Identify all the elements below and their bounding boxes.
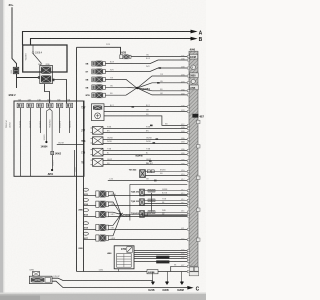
wire 1T6 pin [103, 154, 187, 156]
wire TQB 3X2 p1 [144, 200, 187, 202]
pin tick [187, 193, 189, 195]
ETM pin table [117, 254, 132, 268]
wire TB1 pin [103, 143, 187, 145]
pin tick [187, 250, 189, 252]
wire inner vertical [74, 150, 76, 176]
pin tick [187, 90, 189, 92]
relay box outline [23, 45, 67, 72]
scan edge left [0, 0, 3, 300]
wire ETM out [134, 254, 187, 256]
wire 2X4 to splice [108, 202, 121, 215]
wire ETM out [134, 258, 187, 260]
big box bottom edge [77, 271, 188, 273]
wire 30+ feed down [12, 7, 17, 67]
injector 0X7 [83, 232, 88, 235]
wire below 14062 [52, 155, 54, 169]
pin tick [187, 67, 189, 69]
injector 4X4 [83, 209, 88, 212]
pin tick [187, 190, 189, 192]
sensor T6X body [140, 170, 146, 178]
pin tick [187, 110, 189, 112]
sensor TX7 body [92, 104, 105, 121]
pin tick [187, 94, 189, 96]
splice box B12b [156, 260, 169, 263]
pin tick [187, 239, 189, 241]
wire 1T6 pin [103, 150, 187, 152]
node 1006:4 [32, 52, 34, 54]
pin tick [187, 138, 189, 140]
wire relay right pin [52, 80, 66, 104]
pin tick [187, 164, 189, 166]
ECM box label [190, 54, 198, 59]
pin tick [187, 170, 189, 172]
wire splice mark [149, 160, 152, 162]
wire TQ8 4X2 p2 [144, 215, 187, 217]
wire 0X4 left stub [84, 229, 96, 231]
ECM nub 5 [197, 238, 200, 241]
terminal T3 [37, 103, 43, 108]
terminal T4 [47, 103, 53, 108]
pin tick [187, 215, 189, 217]
wire vertical link [151, 193, 153, 212]
wire TQ8 4X2 p1 [144, 212, 187, 214]
pedal sensor top [32, 272, 39, 277]
pin tick [187, 106, 189, 108]
sub box outline [130, 184, 187, 220]
wire row 4 to splice [105, 86, 136, 89]
bus vertical x84 [83, 101, 85, 272]
ETM bottom stub [118, 269, 120, 272]
wire top feed to fuse [77, 47, 121, 54]
pin tick [187, 211, 189, 213]
pin tick [187, 203, 189, 205]
pin tick [187, 265, 189, 267]
wire 2T7 pin [103, 132, 187, 134]
scan edge bottom [0, 294, 206, 300]
wire 0X7 to splice [108, 215, 121, 236]
pin tick [187, 160, 189, 162]
wire row 2 to ECM [105, 68, 187, 72]
wire ETM out [134, 256, 187, 258]
pedal sensor body [29, 276, 52, 283]
wire T6X pin1 [145, 171, 187, 173]
ECM dark block 4B7 [192, 114, 198, 118]
wire lamp branch [46, 108, 49, 141]
pin tick [187, 59, 189, 61]
wire splice mark [156, 138, 159, 140]
wire splice mark [132, 106, 135, 108]
pin tick [187, 127, 189, 129]
terminal T5 [56, 103, 62, 108]
terminal T1 [17, 103, 23, 108]
pin tick [187, 270, 189, 272]
wire 0X4 to splice [108, 215, 121, 226]
wire pedal out1 [52, 278, 153, 280]
injector 2X4 [83, 198, 88, 201]
wire 2X3 to splice [108, 192, 121, 215]
wire 0X7 left stub [84, 239, 96, 241]
wire splice mark [159, 67, 162, 69]
pin tick [187, 213, 189, 215]
pin tick [187, 149, 189, 151]
ECM sym circle 1 [191, 65, 196, 70]
splice box B12a [156, 256, 169, 259]
wire fuse to ECM [131, 56, 187, 58]
wire TX7 pin2 [104, 111, 187, 113]
ground 31/6B [167, 272, 169, 282]
pin tick [187, 124, 189, 126]
node dot B/61 [51, 169, 53, 171]
wire TQB 2X2 p1 [144, 190, 187, 192]
ECM sym circle 2 [191, 79, 195, 83]
wire ETM out [134, 252, 187, 254]
junction box outline [14, 101, 84, 176]
node dot 14084 [45, 141, 47, 143]
arrowhead A [191, 30, 198, 34]
wire 4X4 to splice [108, 212, 121, 214]
wire 4X4 out [108, 216, 187, 218]
pin tick [187, 142, 189, 144]
wire pedal out2 [52, 281, 187, 287]
pin tick [187, 258, 189, 260]
wire below T5 [59, 108, 61, 133]
wire junction box exit right [57, 144, 84, 146]
wire below T2 [30, 108, 32, 176]
wire below connector [16, 74, 18, 88]
terminal T2 [27, 103, 33, 108]
wire row 3 to splice [105, 79, 136, 88]
wire node to relay [33, 45, 42, 64]
pin tick [187, 174, 189, 176]
wire splice ray [137, 83, 187, 88]
pin tick [187, 153, 189, 155]
wire 2T7 pin [103, 128, 187, 130]
pin tick [187, 195, 189, 197]
wire splice out [123, 214, 188, 216]
ECM nub 1 [197, 120, 200, 123]
ECM bottom blocks [189, 267, 193, 271]
wire 0X7 out [108, 239, 187, 241]
wire splice ray [137, 88, 187, 91]
pin tick [187, 131, 189, 133]
connector box 14062 [51, 151, 54, 154]
wire ETM out [134, 250, 187, 252]
wire to relay coil [17, 77, 40, 79]
page background [0, 0, 206, 300]
wire TQB 3X2 p2 [144, 203, 187, 205]
pin tick [187, 205, 189, 207]
wire T6X pin2 [145, 175, 187, 177]
pin tick [187, 215, 189, 217]
ground 31/8M [181, 272, 183, 282]
wire TX7 pin3 [104, 116, 187, 126]
ECM box AT/B [190, 85, 199, 90]
wire row 1 to ECM [105, 60, 187, 64]
wire splice ray [137, 88, 187, 95]
wire 2X3 out [108, 195, 187, 197]
ECM nub 2 [197, 145, 200, 148]
wire relay bottom pin [45, 84, 50, 104]
connector S2R2B [147, 270, 158, 274]
wire splice mark [150, 125, 153, 127]
wire 4X4 left stub [84, 216, 96, 218]
wire below T6 [69, 108, 71, 133]
wire splice mark [153, 142, 156, 144]
fuse 6/28 cluster [120, 55, 123, 59]
wire splice ray [137, 76, 187, 88]
wire ETM out [134, 261, 187, 263]
wire TB1 pin [103, 139, 187, 141]
wire TB pin [103, 160, 187, 162]
pin tick [187, 254, 189, 256]
pin tick [187, 228, 189, 230]
big box left edge [76, 47, 78, 271]
scan noise [0, 0, 1, 1]
ETM box [114, 246, 134, 269]
wire 2X4 left stub [84, 205, 96, 207]
wire to arrow A [23, 32, 191, 46]
arrowhead C [187, 286, 193, 290]
ground 31/4B [152, 272, 154, 282]
ECM nub 3 [197, 176, 200, 179]
wire TQB 2X2 p2 [144, 194, 187, 196]
pin tick [187, 75, 189, 77]
wire splice mark [154, 180, 157, 182]
wire TB pin [103, 164, 187, 166]
wire splice mark [157, 82, 160, 84]
wire row 5 to splice [105, 88, 136, 95]
splice node LH061 [136, 87, 138, 89]
pin tick [187, 260, 189, 262]
pin tick [187, 199, 189, 201]
splice node 15008 [119, 213, 122, 216]
pin tick [187, 252, 189, 254]
wire 2X4 out [108, 205, 187, 207]
relay K body [40, 65, 53, 83]
wire TX7 pin1 [104, 106, 187, 108]
pin tick [187, 179, 189, 181]
pin tick [187, 256, 189, 258]
wire hook [171, 266, 188, 271]
wire to 14062 box [50, 108, 52, 152]
wire to arrow B [31, 39, 191, 46]
wire below T1 [20, 108, 22, 176]
pin tick [187, 56, 189, 58]
wire long 180 [108, 180, 188, 182]
pin tick [187, 82, 189, 84]
terminal T6 [66, 103, 72, 108]
arrowhead B [191, 37, 198, 41]
injector 2X3 [83, 188, 88, 191]
ECM box 50B0 [190, 73, 199, 78]
injector 0X4 [83, 222, 88, 225]
wire 2X3 left stub [84, 195, 96, 197]
wire 0X4 out [108, 229, 187, 231]
ECM nub 4 [197, 208, 200, 211]
wire below T3 [40, 108, 42, 133]
inline connector C1 [13, 67, 19, 74]
